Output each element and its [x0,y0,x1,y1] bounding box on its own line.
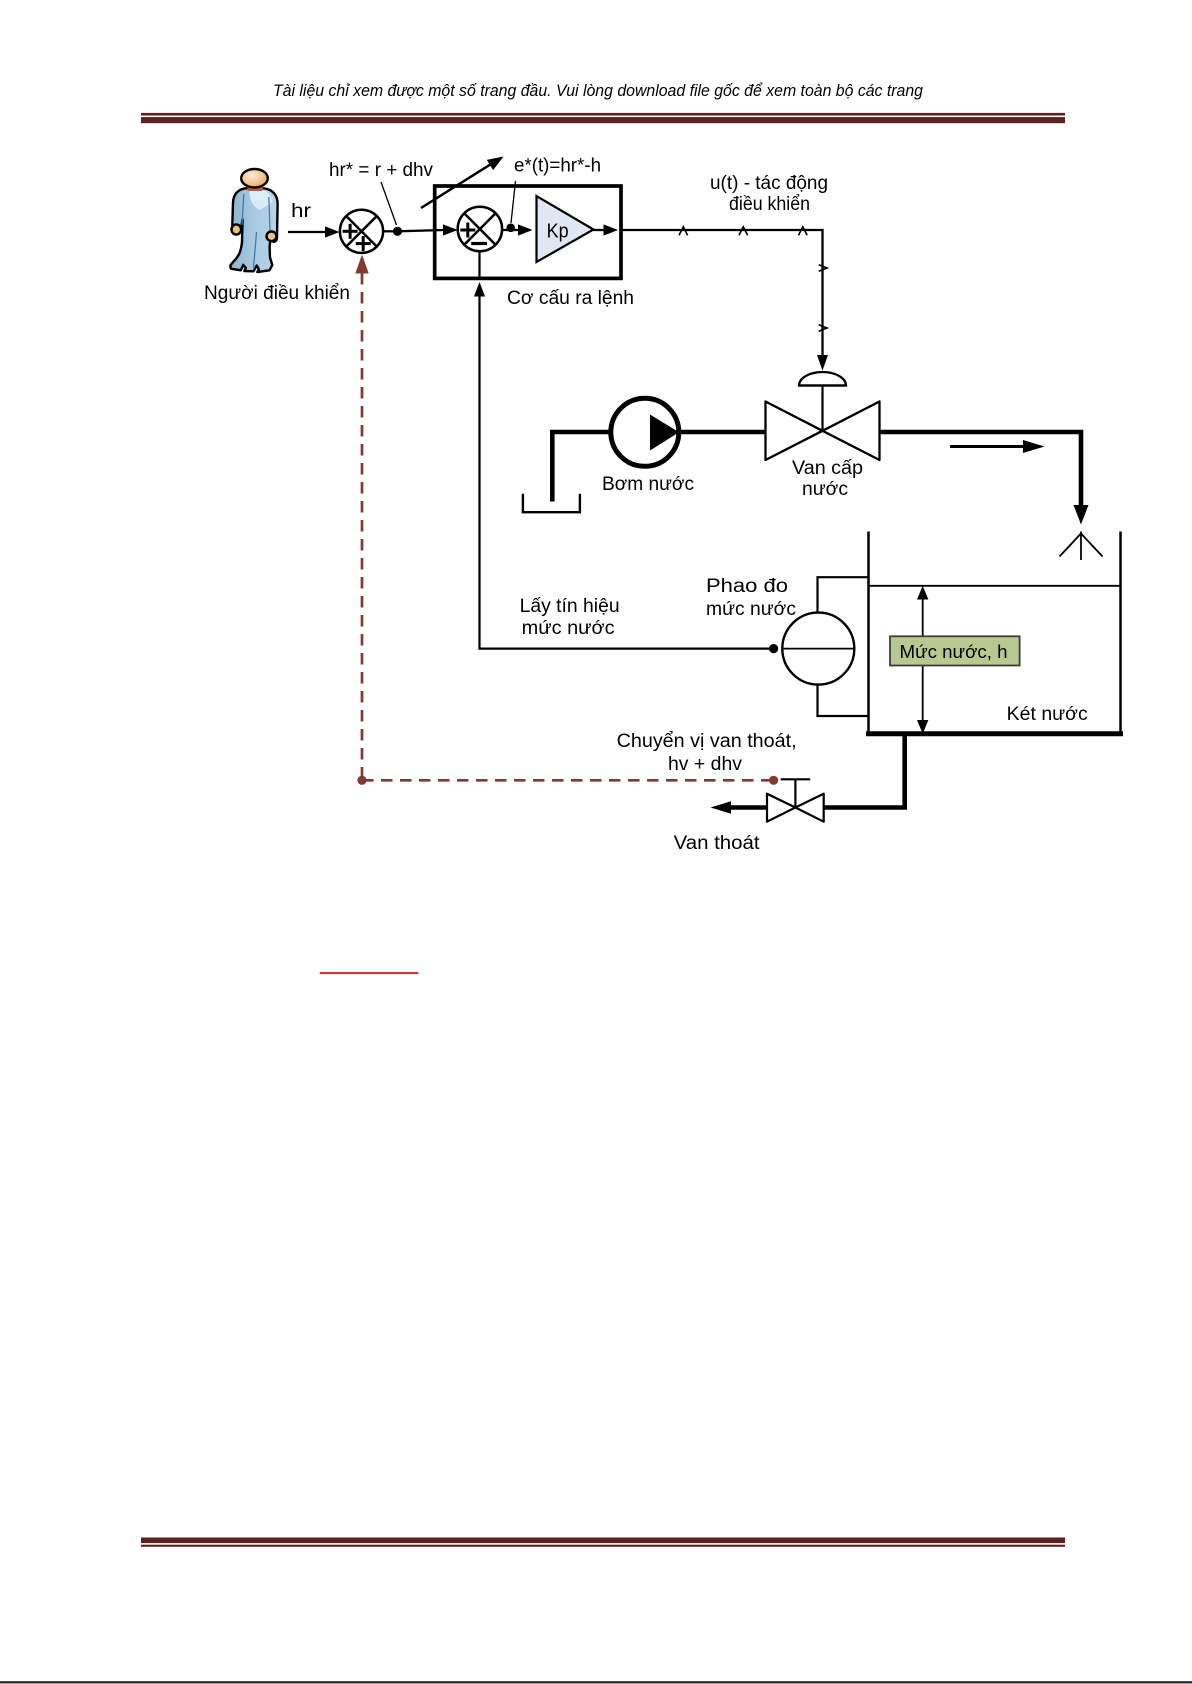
water surface line [869,585,1120,587]
svg-text:hr* = r + dhv: hr* = r + dhv [329,160,433,181]
signal mark 2 on horizontal wire [739,227,748,235]
svg-text:e*(t)=hr*-h: e*(t)=hr*-h [514,156,601,177]
actuator dome [798,372,846,431]
svg-text:Mức nước, h: Mức nước, h [900,641,1008,662]
svg-text:Van cấp: Van cấp [792,458,863,479]
disturbance dashed wire horizontal [362,779,774,782]
control signal wire u(t) [621,230,823,356]
green label box Mức nước, h [890,636,1020,665]
tank drain pipe [824,734,905,808]
flow direction arrow [950,440,1045,453]
amplifier Kp [537,196,594,262]
svg-text:Két nước: Két nước [1007,704,1088,725]
disturbance dashed wire vertical [361,273,364,780]
svg-text:Người điều khiển: Người điều khiển [204,283,350,304]
float sensor Phao đo mức nước [782,613,854,685]
svg-text:Van thoát: Van thoát [674,833,761,854]
sensor mount lines [818,577,869,612]
node dot e* [506,224,515,233]
svg-text:Tài liệu chỉ xem được một số t: Tài liệu chỉ xem được một số trang đầu. … [273,81,923,100]
pipe pump to valve [677,430,766,435]
leader line to e* label [511,181,516,223]
svg-text:điều khiển: điều khiển [729,194,810,215]
pump Bơm nước [611,398,679,466]
drain valve handle bar [781,778,811,780]
bucket [523,494,580,512]
bottom double rule [141,1538,1065,1547]
drain valve Van thoát [767,794,824,822]
drain valve stem [794,779,796,807]
tank walls [866,532,1123,734]
water level measure arrow h [917,586,928,734]
actuator arrow down [817,355,828,371]
signal mark 1 on horizontal wire [679,227,688,235]
pipe suction with bucket [552,432,611,502]
wire node to S2 with arrowhead [398,224,458,235]
svg-text:Chuyển vị van thoát,: Chuyển vị van thoát, [617,731,797,752]
signal mark 2 on vertical wire [819,325,827,332]
person (operator figure) [230,169,277,272]
signal mark 3 on horizontal wire [799,227,808,235]
disturbance end dot [769,776,778,785]
feedback node dot [769,644,778,653]
summing junction S2 [458,207,502,251]
feedback wire to controller [480,296,774,649]
svg-text:Kp: Kp [547,221,569,243]
summing junction S1 [340,210,383,253]
wire Kp to box edge with arrowhead [594,224,619,235]
disturbance arrowhead into S1 [355,255,368,274]
signal mark 1 on vertical wire [819,265,827,272]
red underline segment [320,972,419,974]
node dot after S1 [393,227,402,236]
bottom page edge artifact [0,1681,1192,1683]
svg-text:Phao đo: Phao đo [706,576,788,597]
svg-text:Cơ cấu ra lệnh: Cơ cấu ra lệnh [507,288,634,309]
feedback arrowhead into box [474,282,485,297]
svg-text:Lấy tín hiệu: Lấy tín hiệu [520,596,620,617]
svg-text:mức nước: mức nước [706,599,796,620]
disturbance corner dot [357,776,366,785]
svg-text:nước: nước [802,479,848,500]
top double rule [141,113,1065,123]
svg-text:hv + dhv: hv + dhv [668,754,743,775]
adaptation diagonal arrow [421,157,504,209]
svg-text:u(t) - tác động: u(t) - tác động [710,173,828,194]
wire S2 minus input inside box [478,251,480,279]
valve Van cấp nước [766,402,880,461]
wire S2 to Kp with arrowhead [502,224,532,235]
svg-text:Bơm nước: Bơm nước [602,474,694,495]
svg-text:mức nước: mức nước [522,618,615,639]
drain outflow arrow [711,801,768,813]
pipe valve to tank with arrow [880,432,1082,506]
wire hr input arrow [288,226,340,237]
inflow splash symbol [1060,532,1103,561]
leader line to hr* label [381,182,397,225]
controller box (Cơ cấu ra lệnh) [435,186,621,278]
svg-text:hr: hr [291,201,312,222]
wire S1 output to node [383,230,398,232]
